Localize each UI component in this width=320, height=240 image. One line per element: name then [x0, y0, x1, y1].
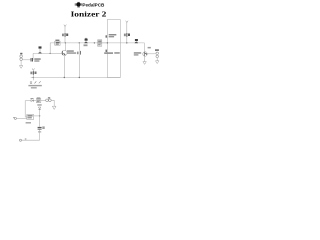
power flag (bias): [30, 68, 36, 77]
wire node A to Q1 base: [50, 52, 62, 54]
wire Q1 emitter down: [63, 56, 65, 78]
node collector junction: [65, 42, 66, 43]
capacitor C filter: [38, 127, 42, 128]
pin 1 upper: [106, 34, 117, 38]
power flag +9V (stage 1): [62, 25, 68, 43]
ground under input jack: [19, 66, 22, 69]
wire R1 to rail: [60, 42, 107, 44]
wire cap down: [39, 130, 41, 141]
wire left rail top: [25, 100, 30, 102]
diode D1: [38, 107, 40, 109]
node rail junction at C4: [79, 42, 80, 43]
pin 2 lower: [104, 50, 120, 54]
ground under output jack: [156, 61, 159, 64]
node pin junction: [107, 42, 108, 43]
regulator box: [27, 115, 34, 120]
node IN label: [20, 53, 22, 55]
label above output wire: [148, 47, 151, 49]
LED diode: [31, 100, 33, 102]
trimmer cluster below rail: [30, 78, 41, 84]
wire Q2 bottom drop: [144, 56, 146, 61]
resistor RLED box: [36, 99, 41, 103]
transistor Q1: [62, 50, 67, 55]
wire box to column: [34, 115, 40, 117]
svg-text:Ionizer 2: Ionizer 2: [71, 10, 107, 19]
diode D1 label: [37, 104, 41, 105]
capacitor T2 (on rail): [84, 38, 88, 43]
power flag +9V (stage 2): [124, 21, 130, 43]
capacitor T3 (on wire): [135, 39, 139, 43]
wire riser to R1: [50, 43, 54, 54]
wire node A horizontal: [33, 52, 50, 54]
node flag junction: [126, 42, 127, 43]
net flag 9V input: [13, 117, 27, 119]
wire collector drop to Q1: [64, 43, 67, 51]
resistor R3 box: [98, 40, 102, 46]
C1 value label: [34, 58, 40, 60]
DC jack label: [48, 97, 50, 98]
node junctions on bottom rail: [33, 77, 34, 78]
wire jack sleeve down: [20, 61, 22, 66]
wire jack tip to C1: [22, 59, 30, 61]
wire C1 up to node A: [32, 53, 34, 59]
wire left rail down: [25, 101, 27, 117]
wire DC jack to ground: [51, 100, 54, 106]
LED label: [31, 98, 34, 99]
net flag bottom: [20, 138, 40, 141]
output jack OUT: [156, 52, 159, 55]
Q2 label MPSA18: [134, 52, 141, 54]
trimmer labels: [28, 85, 41, 86]
wire LED to R box: [34, 100, 37, 102]
capacitor T1 (to node A): [38, 46, 42, 53]
label below rail near T2: [84, 44, 88, 46]
wire rail through bypass box: [102, 42, 145, 44]
polarity mark under cap: [38, 131, 41, 132]
wire Q2 to output jack: [147, 53, 156, 55]
node rail junction right: [94, 42, 95, 43]
ground under Q2: [143, 62, 146, 65]
DC jack: [46, 99, 49, 102]
svg-text:PedalPCB: PedalPCB: [82, 3, 105, 8]
node junction A: [50, 53, 51, 54]
node OUT label: [155, 49, 159, 51]
input jack IN: [20, 55, 23, 58]
transistor Q2: [143, 52, 148, 57]
resistor R1: [55, 41, 60, 45]
PedalPCB logo: [75, 2, 83, 8]
wire diode down: [39, 110, 41, 127]
capacitor C4 (in emitter branch): [77, 43, 80, 78]
wire R box to DC jack: [41, 100, 46, 102]
capacitor C1 (series input cap): [30, 58, 33, 62]
bypass box: [107, 20, 120, 78]
wire bottom rail: [31, 77, 121, 79]
ground at DC jack: [52, 106, 56, 109]
wire drop to Q2: [143, 43, 145, 52]
regulator label below: [26, 122, 31, 123]
Q1 label MPSA18: [67, 50, 74, 52]
wire jack sleeve down: [156, 58, 158, 61]
